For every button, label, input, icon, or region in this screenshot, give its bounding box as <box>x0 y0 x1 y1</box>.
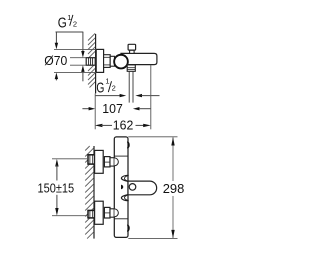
upper neck <box>110 158 114 166</box>
lower joint line <box>114 218 128 220</box>
lower neck <box>110 209 114 217</box>
upper union dome <box>114 158 118 166</box>
svg-text:Ø70: Ø70 <box>44 53 67 68</box>
lower union nut <box>104 207 110 218</box>
wall hatching (bottom view) <box>85 146 93 239</box>
wall (top side view) hatching <box>88 33 95 87</box>
svg-text:G: G <box>96 80 104 96</box>
outlet nipple lines <box>128 71 130 102</box>
svg-text:162: 162 <box>113 118 134 133</box>
svg-text:298: 298 <box>163 181 185 196</box>
dimension 107 <box>82 108 89 110</box>
G1/2 extension lines (stub edges) <box>70 57 86 59</box>
svg-text:2: 2 <box>112 84 116 93</box>
wall face line (top view) <box>95 34 97 93</box>
diverter circle on spout <box>129 184 136 191</box>
lower flange <box>95 201 104 224</box>
G1/2 leader (bottom) with arrows <box>95 95 120 97</box>
handle circle (side view) <box>114 55 128 69</box>
lower wall stub <box>88 210 95 218</box>
298 dimension <box>128 136 177 138</box>
neck (top view) <box>110 56 114 66</box>
outlet fitting below body <box>127 65 135 71</box>
upper flange <box>95 150 104 173</box>
diverter knob stem <box>130 50 135 53</box>
label G1/2 (bottom of top view) <box>96 77 115 97</box>
lower spout fillet ear <box>121 195 128 201</box>
diverter knob cap <box>128 44 136 50</box>
extension line body end (162) <box>150 65 152 130</box>
extension line wall face (below top view) <box>94 93 96 129</box>
lower union dome <box>114 209 118 217</box>
G1/2 wall stub (top view) <box>86 58 95 65</box>
G1/2 leader (top) <box>56 31 84 33</box>
upper union nut <box>104 157 110 167</box>
upper handle mark <box>127 142 129 148</box>
temp button (dark half disc) <box>121 185 123 190</box>
label G1/2 (top) <box>58 13 77 31</box>
faucet body column with handles <box>114 137 128 238</box>
wall face line (bottom view) <box>93 146 95 239</box>
faucet body (top view) <box>121 53 157 64</box>
dia 70 dimension <box>54 48 96 50</box>
upper spout fillet ear <box>121 175 128 181</box>
union nut (top view) <box>104 55 111 68</box>
svg-text:150±15: 150±15 <box>38 180 75 195</box>
150 +-15 dimension <box>52 158 88 160</box>
upper joint line <box>114 155 128 157</box>
svg-text:2: 2 <box>73 20 77 29</box>
svg-text:1: 1 <box>105 77 109 86</box>
escutcheon flange (top view) <box>96 49 103 72</box>
lower handle mark <box>127 225 129 231</box>
spout (view from above) <box>128 181 157 195</box>
svg-text:G: G <box>58 15 67 31</box>
svg-text:107: 107 <box>102 101 123 116</box>
dimension 162 <box>95 124 103 127</box>
upper wall stub <box>88 155 95 164</box>
